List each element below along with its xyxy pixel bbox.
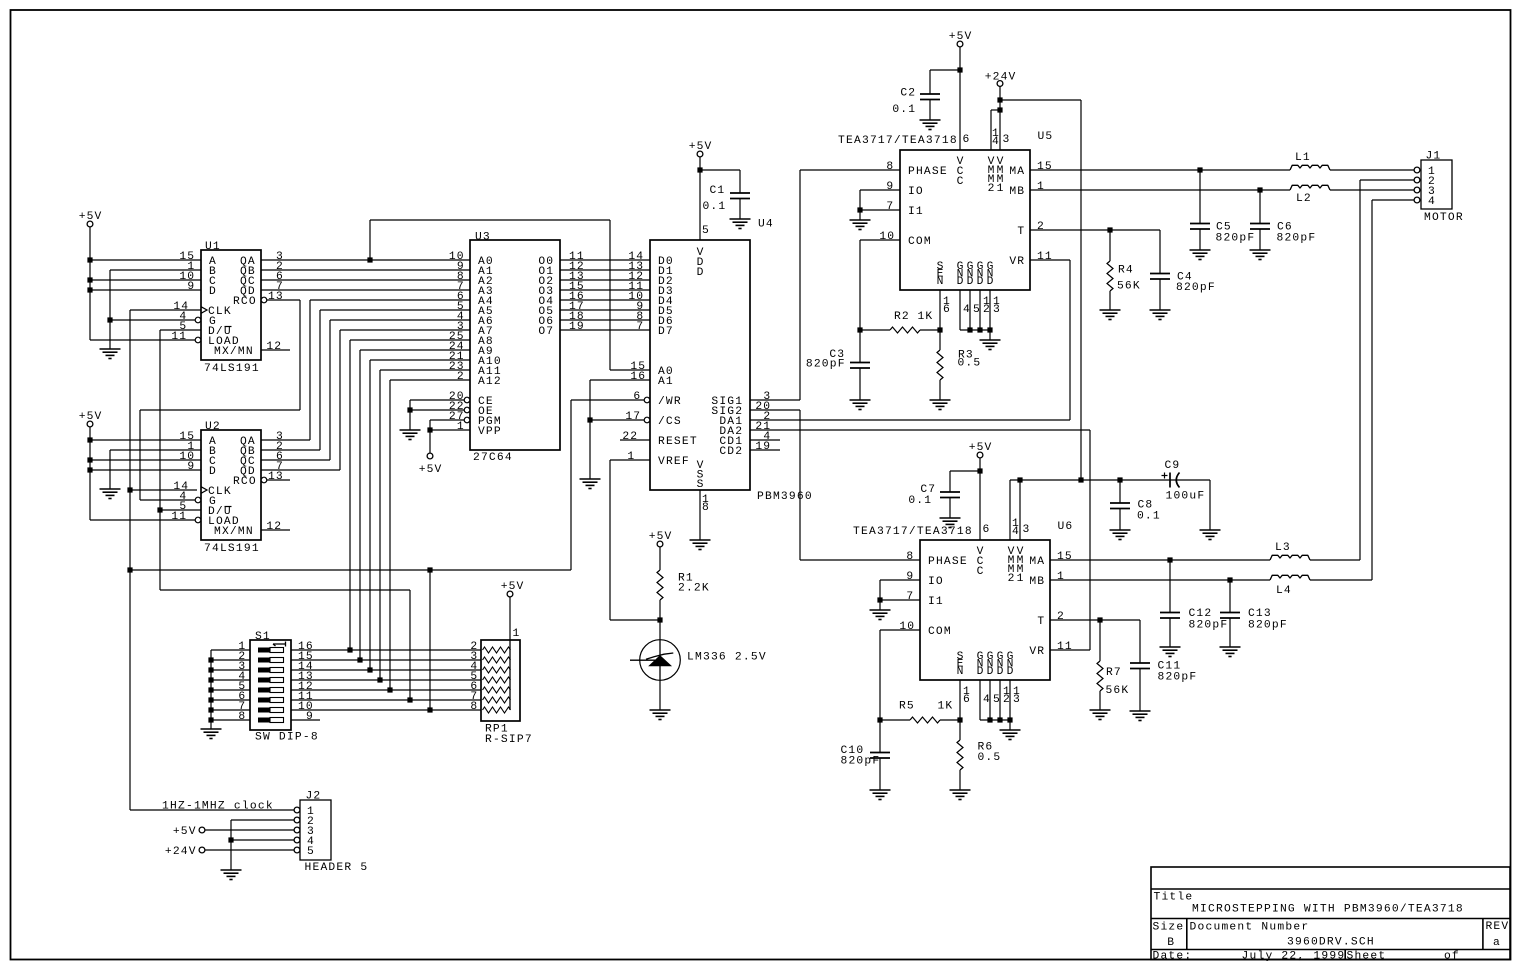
svg-text:C12: C12 — [1189, 608, 1212, 620]
resistor R3 0.5 — [937, 350, 943, 380]
U1 bubble pin 11 LOAD — [195, 337, 201, 343]
wire U3 O4 to U4 D4 — [560, 299, 650, 301]
resistor R4 56K — [1107, 261, 1113, 291]
wire A0 branch to U4 A0 — [370, 220, 650, 370]
RP1 internal resistor 2 — [483, 657, 511, 663]
svg-text:J1: J1 — [1426, 151, 1441, 163]
junction +24V branch right — [997, 97, 1002, 102]
ground below LM336 — [650, 710, 671, 720]
junction S1 common at 670 — [208, 667, 213, 672]
junction U1 pin A — [87, 257, 92, 262]
wire S1 row 9 stub — [291, 719, 320, 721]
wire U6 SEN down — [959, 680, 961, 740]
wire U4 CD2 stub — [750, 449, 780, 451]
svg-text:R2: R2 — [894, 311, 909, 323]
J1 pin circle 3 — [1414, 187, 1420, 193]
junction C2 tap — [957, 67, 962, 72]
ground for U4 VSS — [690, 540, 711, 550]
capacitor C8 0.1 — [1110, 503, 1130, 509]
svg-text:C: C — [957, 176, 964, 188]
svg-text:27C64: 27C64 — [473, 452, 512, 464]
junction A10 row — [367, 667, 372, 672]
capacitor C12 820pF — [1160, 613, 1180, 619]
svg-text:0.1: 0.1 — [1137, 511, 1160, 523]
svg-text:10: 10 — [899, 621, 914, 633]
junction S1 common at 700 — [208, 697, 213, 702]
J1 pin circle 2 — [1414, 177, 1420, 183]
wire A12 net U3 to S1/RP1 — [390, 380, 470, 690]
svg-text:/WR: /WR — [658, 396, 681, 408]
wire U4 DA1 to U5 VR — [750, 260, 1070, 420]
wire C13 to ground — [1229, 580, 1231, 647]
svg-text:6: 6 — [943, 304, 950, 316]
svg-text:5: 5 — [973, 304, 980, 316]
svg-text:1K: 1K — [938, 701, 953, 713]
ground for C6 — [1250, 250, 1271, 260]
junction R4 on T net — [1107, 227, 1112, 232]
svg-text:A12: A12 — [478, 376, 501, 388]
svg-text:1: 1 — [457, 421, 464, 433]
svg-text:D: D — [209, 466, 216, 478]
svg-text:13: 13 — [268, 471, 283, 483]
junction D/U at U2 pin 5 — [157, 507, 162, 512]
junction C5 on MA net — [1197, 167, 1202, 172]
capacitor C6 820pF — [1250, 224, 1270, 230]
U5 pin name VMM2 — [988, 156, 995, 195]
U2 bubble pin 13 RCO — [261, 477, 267, 483]
wire U6 MA to L3 — [1050, 559, 1270, 561]
junction U5 GND c — [977, 327, 982, 332]
svg-text:1HZ-1MHZ clock: 1HZ-1MHZ clock — [162, 801, 273, 813]
svg-text:16: 16 — [630, 371, 645, 383]
svg-text:D: D — [957, 276, 964, 288]
svg-text:I1: I1 — [908, 206, 923, 218]
svg-text:D: D — [997, 666, 1004, 678]
junction CE OE ground — [407, 407, 412, 412]
svg-text:3: 3 — [993, 304, 1000, 316]
wire +5V to U6 VCC — [979, 458, 981, 540]
junction C7 tap — [977, 468, 982, 473]
svg-text:/CS: /CS — [658, 416, 681, 428]
U6 pin name GND a — [977, 651, 984, 678]
U6 pin name GND d — [1007, 651, 1014, 678]
svg-text:4: 4 — [1012, 526, 1019, 538]
svg-text:12: 12 — [266, 341, 281, 353]
S1 position-1 marker — [273, 642, 286, 647]
junction C6 on MB net — [1257, 187, 1262, 192]
junction U6 GND c — [997, 717, 1002, 722]
svg-text:+5V: +5V — [689, 141, 712, 153]
wire R6 to ground — [959, 770, 961, 790]
svg-text:2: 2 — [1057, 611, 1064, 623]
junction SEN R5 R6 — [957, 717, 962, 722]
svg-text:820pF: 820pF — [1189, 620, 1228, 632]
wire C5 to ground — [1199, 170, 1201, 250]
svg-text:9: 9 — [886, 181, 893, 193]
ground for C12 — [1160, 647, 1181, 657]
svg-text:4: 4 — [963, 304, 970, 316]
svg-text:1: 1 — [1057, 571, 1064, 583]
+5V terminal for RP1 — [507, 591, 513, 597]
capacitor C7 0.1 — [940, 492, 960, 498]
wire C2 branch — [930, 70, 960, 120]
S1 switch element 2 — [258, 658, 284, 663]
svg-text:RCO: RCO — [233, 296, 256, 308]
wire A9 net U3 to S1/RP1 — [360, 350, 470, 660]
U4 pin name VDD — [697, 247, 704, 279]
svg-text:July 22, 1999: July 22, 1999 — [1242, 951, 1345, 963]
svg-text:2: 2 — [1008, 573, 1015, 585]
junction S1 common at 660 — [208, 657, 213, 662]
svg-text:2: 2 — [983, 304, 990, 316]
resistor R7 56K — [1097, 661, 1103, 691]
junction U1 pin C — [87, 277, 92, 282]
junction U6 VMM1 — [1017, 477, 1022, 482]
wire U5 MB to L2 — [1030, 189, 1290, 191]
U5 pin name GND d — [987, 261, 994, 288]
U6 pin name SEN — [957, 651, 964, 678]
svg-text:+5V: +5V — [969, 442, 992, 454]
svg-text:D: D — [977, 666, 984, 678]
IC U1 74LS191 box — [201, 250, 261, 360]
wire A11 net U3 to S1/RP1 — [380, 370, 470, 680]
U5 pin name VMM1 — [997, 156, 1004, 195]
wire U2 QA to U3 A4 — [261, 300, 470, 440]
wire U4 A1 to /CS and ground — [590, 380, 650, 479]
junction U6 I1 — [877, 597, 882, 602]
wire U6 GND pins to ground — [980, 680, 1010, 730]
wire U6 IO I1 to ground — [880, 580, 920, 610]
junction S1 common at 720 — [208, 717, 213, 722]
wire U3 PGM VPP to +5V — [430, 420, 470, 453]
junction U1 pin D — [87, 287, 92, 292]
svg-text:0.1: 0.1 — [892, 104, 915, 116]
wire U4 VREF to LM336 — [610, 460, 660, 620]
wire +5V to U5 VCC — [959, 47, 961, 150]
resistor R5 1K — [910, 717, 940, 723]
svg-text:MX/MN: MX/MN — [214, 526, 253, 538]
junction COM C10 R5 — [877, 717, 882, 722]
svg-text:4: 4 — [983, 694, 990, 706]
svg-text:L4: L4 — [1276, 585, 1291, 597]
svg-text:8: 8 — [470, 701, 477, 713]
+24V terminal for U5 — [997, 81, 1003, 87]
svg-text:+5V: +5V — [79, 211, 102, 223]
ground for J2 — [221, 870, 242, 880]
+5V terminal for U3 VPP — [427, 453, 433, 459]
svg-text:Size: Size — [1153, 922, 1184, 934]
svg-text:13: 13 — [268, 291, 283, 303]
svg-text:B: B — [1167, 937, 1174, 949]
svg-text:U1: U1 — [205, 241, 220, 253]
U5 pin name GND a — [957, 261, 964, 288]
U6 pin name GND c — [997, 651, 1004, 678]
ground below U2 pin B — [100, 489, 121, 499]
svg-text:19: 19 — [569, 321, 584, 333]
connector J1 MOTOR box — [1421, 160, 1452, 209]
wire clock net vertical — [130, 310, 571, 810]
junction U6 GND b — [987, 717, 992, 722]
capacitor C4 820pF — [1150, 274, 1170, 280]
wire U1 pin G to B ground rail — [110, 319, 195, 321]
wire R7 to ground — [1099, 620, 1101, 710]
wire J2 pin 2 and 4 to ground — [231, 820, 294, 870]
ground for C10 — [870, 790, 891, 800]
capacitor C1 0.1 — [730, 193, 750, 199]
wire U3 O3 to U4 D3 — [560, 289, 650, 291]
ground for C11 — [1130, 711, 1151, 721]
J1 pin circle 4 — [1414, 197, 1420, 203]
junction R7 on T net — [1097, 617, 1102, 622]
title block frame — [1151, 867, 1510, 960]
wire U5 T to R4 C4 — [1030, 230, 1160, 274]
wire U1 RCO to U2 G — [140, 300, 300, 500]
svg-text:COM: COM — [908, 236, 931, 248]
svg-text:I1: I1 — [928, 596, 943, 608]
wire U3 O5 to U4 D5 — [560, 309, 650, 311]
IC U4 PBM3960 box — [650, 240, 750, 490]
wire +5V to U4 VDD — [699, 157, 701, 240]
wire U2 RCO stub — [267, 479, 290, 481]
svg-text:+5V: +5V — [501, 581, 524, 593]
svg-text:6: 6 — [983, 524, 990, 536]
svg-text:3: 3 — [1003, 134, 1010, 146]
U1 bubble pin 4 G — [195, 317, 201, 323]
svg-text:56K: 56K — [1106, 685, 1129, 697]
svg-text:of: of — [1444, 951, 1459, 963]
IC U2 74LS191 box — [201, 430, 261, 540]
svg-text:820pF: 820pF — [806, 359, 845, 371]
svg-text:U5: U5 — [1038, 131, 1053, 143]
svg-text:+5V: +5V — [419, 464, 442, 476]
resistor network RP1 R-SIP7 box — [481, 640, 520, 721]
wire U3 CE OE to ground — [410, 400, 464, 430]
U6 pin name GND b — [987, 651, 994, 678]
svg-text:C: C — [977, 566, 984, 578]
svg-text:4: 4 — [992, 136, 999, 148]
svg-text:Date:: Date: — [1153, 951, 1192, 963]
svg-text:9: 9 — [187, 281, 194, 293]
junction U5 I1 — [857, 207, 862, 212]
wire U5 SEN down — [939, 290, 941, 350]
wire J2 pin 5 +24V — [205, 849, 294, 851]
wire S1 row 11 to RP1 pin 7 — [291, 590, 481, 700]
inductor L1 — [1290, 165, 1330, 170]
U6 pin name VMM1 — [1017, 546, 1024, 585]
wire U5 MA to L1 — [1030, 169, 1290, 171]
svg-text:RCO: RCO — [233, 476, 256, 488]
svg-text:R-SIP7: R-SIP7 — [485, 734, 532, 746]
svg-text:56K: 56K — [1117, 281, 1140, 293]
ground for C13 — [1220, 647, 1241, 657]
svg-text:820pF: 820pF — [1248, 620, 1287, 632]
svg-text:L3: L3 — [1275, 542, 1290, 554]
wire U1 QD to U3 A3 — [261, 289, 470, 291]
svg-text:C2: C2 — [900, 88, 915, 100]
inductor L2 — [1290, 185, 1330, 190]
wire U3 O0 to U4 D0 — [560, 259, 650, 261]
svg-text:6: 6 — [963, 694, 970, 706]
junction +24V feed — [1078, 477, 1083, 482]
junction A8 row — [347, 647, 352, 652]
wire A8 net U3 to S1/RP1 — [350, 340, 470, 650]
wire R4 to ground — [1109, 230, 1111, 310]
svg-text:7: 7 — [906, 591, 913, 603]
C9 plus sign — [1162, 473, 1168, 479]
ground for R3 — [930, 400, 951, 410]
RP1 internal resistor 7 — [483, 707, 511, 713]
wire U1 QB to U3 A1 — [261, 269, 470, 271]
S1 switch element 1 — [258, 648, 284, 653]
wire U2 QB to U3 A5 — [261, 310, 470, 450]
svg-text:8: 8 — [238, 711, 245, 723]
U1 overline on U of D/U — [225, 326, 232, 328]
svg-text:VR: VR — [1009, 256, 1024, 268]
wire U3 O6 to U4 D6 — [560, 319, 650, 321]
ground for U4 /CS A1 — [580, 479, 601, 489]
junction COM C3 R2 — [857, 327, 862, 332]
wire U1 QC to U3 A2 — [261, 279, 470, 281]
svg-text:74LS191: 74LS191 — [204, 543, 259, 555]
S1 switch element 6 — [258, 698, 284, 703]
ground for C9 — [1200, 530, 1221, 540]
wire S1 common to ground — [211, 650, 250, 729]
wire U5 GND pins to ground — [960, 290, 990, 340]
capacitor C13 820pF — [1220, 613, 1240, 619]
inductor L4 — [1270, 575, 1310, 580]
ground for C3 — [850, 400, 871, 410]
svg-text:D7: D7 — [658, 326, 673, 338]
wire U4 SIG1 to U5 PHASE — [750, 170, 900, 400]
junction U2 pin C — [87, 457, 92, 462]
wire D/U net vertical — [160, 330, 410, 590]
svg-text:PBM3960: PBM3960 — [757, 491, 812, 503]
svg-text:S1: S1 — [255, 631, 270, 643]
svg-text:11: 11 — [1037, 251, 1052, 263]
U5 pin name GND c — [977, 261, 984, 288]
junction A0 to U4 branch — [367, 257, 372, 262]
wire U4 SIG2 to U6 PHASE — [750, 410, 920, 560]
svg-text:LM336 2.5V: LM336 2.5V — [687, 652, 766, 664]
resistor R2 1K — [890, 327, 920, 333]
wire U6 COM to R5 — [880, 630, 920, 720]
svg-text:D: D — [987, 276, 994, 288]
svg-text:Document Number: Document Number — [1190, 922, 1309, 934]
svg-text:O7: O7 — [538, 326, 553, 338]
U2 overline on U of D/U — [225, 506, 232, 508]
wire S1 row 12 to RP1 pin 6 — [291, 689, 481, 691]
U1 CLK input wedge — [201, 307, 207, 314]
junction U6 GND d — [1007, 717, 1012, 722]
wire +24V rail at U6 — [1010, 480, 1210, 540]
svg-text:820pF: 820pF — [1158, 672, 1197, 684]
wire R1 from +5V — [659, 547, 661, 640]
junction +24V branch pin14 — [997, 107, 1002, 112]
svg-text:820pF: 820pF — [841, 756, 880, 768]
svg-text:8: 8 — [702, 502, 709, 514]
+5V terminal for U6 — [977, 452, 983, 458]
svg-text:PHASE: PHASE — [928, 556, 967, 568]
svg-text:+24V: +24V — [985, 72, 1016, 84]
svg-text:2: 2 — [1037, 221, 1044, 233]
wire C8 to ground — [1119, 480, 1121, 530]
svg-text:U3: U3 — [475, 232, 490, 244]
wire C10 to ground — [879, 720, 881, 790]
junction A12 row — [387, 687, 392, 692]
wire C7 branch — [950, 471, 980, 518]
ground for R6 — [950, 790, 971, 800]
svg-text:1K: 1K — [918, 311, 933, 323]
svg-text:HEADER 5: HEADER 5 — [305, 862, 368, 874]
wire U4 DA2 to U6 VR — [750, 430, 1090, 650]
svg-text:8: 8 — [886, 161, 893, 173]
svg-text:J2: J2 — [306, 791, 321, 803]
svg-text:1: 1 — [627, 451, 634, 463]
ground for C7 — [940, 518, 961, 528]
U4 pin name VSS — [697, 460, 704, 491]
U5 pin name VCC — [957, 156, 964, 188]
svg-text:IO: IO — [908, 186, 923, 198]
svg-text:REV: REV — [1486, 921, 1509, 933]
wire U4 VSS to ground — [699, 490, 701, 540]
svg-text:S: S — [697, 479, 704, 491]
wire S1 row 16 to RP1 pin 2 — [291, 649, 481, 651]
wire C11 to ground — [1139, 669, 1141, 712]
svg-text:C9: C9 — [1165, 460, 1180, 472]
svg-text:VR: VR — [1029, 646, 1044, 658]
wire U2 MX/MN stub — [261, 529, 290, 531]
RP1 internal resistor 5 — [483, 687, 511, 693]
ground for R7 — [1090, 710, 1111, 720]
S1 switch element 5 — [258, 688, 284, 693]
svg-text:MA: MA — [1029, 556, 1044, 568]
svg-text:A1: A1 — [658, 376, 673, 388]
svg-text:U6: U6 — [1058, 521, 1073, 533]
svg-text:MX/MN: MX/MN — [214, 346, 253, 358]
wire RP1 pin 1 to +5V — [509, 597, 511, 640]
switch S1 SW DIP-8 box — [250, 640, 291, 730]
+5V terminal for U5 — [957, 41, 963, 47]
svg-text:2: 2 — [457, 371, 464, 383]
wire U2 QD to U3 A7 — [261, 330, 470, 470]
wire S1 row 10 to RP1 pin 8 — [291, 570, 481, 710]
svg-text:RESET: RESET — [658, 436, 697, 448]
polarized capacitor C9 100uF — [1170, 473, 1180, 488]
svg-text:2: 2 — [988, 183, 995, 195]
svg-text:7: 7 — [636, 321, 643, 333]
U2 CLK input wedge — [201, 487, 207, 494]
resistor R6 0.5 — [957, 740, 963, 770]
J2 pin circle 3 — [294, 827, 300, 833]
svg-text:1: 1 — [997, 183, 1004, 195]
svg-text:0.1: 0.1 — [908, 495, 931, 507]
capacitor C3 820pF — [850, 363, 870, 369]
svg-text:SW DIP-8: SW DIP-8 — [255, 732, 318, 744]
RP1 internal resistor 3 — [483, 667, 511, 673]
junction U2 pin A — [87, 437, 92, 442]
wire LM336 to ground — [659, 681, 661, 711]
svg-text:820pF: 820pF — [1216, 233, 1255, 245]
svg-text:6: 6 — [963, 134, 970, 146]
svg-text:MOTOR: MOTOR — [1424, 212, 1463, 224]
svg-text:7: 7 — [886, 201, 893, 213]
J2 pin circle 1 — [294, 807, 300, 813]
junction VREF R1 LM336 — [657, 617, 662, 622]
ground for C2 — [920, 120, 941, 130]
junction U5 GND d — [987, 327, 992, 332]
wire +5V rail to U1 pins A C D LOAD — [90, 227, 201, 340]
svg-text:+5V: +5V — [649, 531, 672, 543]
